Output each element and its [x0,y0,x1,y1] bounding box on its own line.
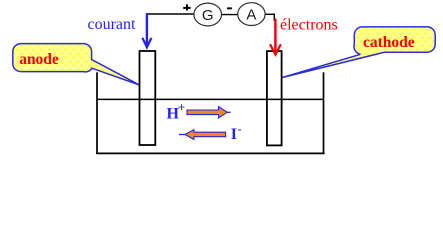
cathode callout bubble [282,27,435,78]
wire A to corner [265,13,276,15]
minus sign [227,7,232,9]
electrons red arrow shaft [274,19,276,52]
plus sign [183,7,190,9]
svg-text:A: A [246,7,256,24]
wire electrode to G [146,13,194,15]
H+ arrow (right) [187,107,227,118]
svg-text:électrons: électrons [280,17,338,34]
left electrode (anode plate) [140,51,156,145]
svg-text:-: - [238,122,242,136]
generator G [194,3,222,26]
tank left wall [96,72,98,154]
wire corner down to cathode [273,14,275,21]
svg-text:cathode: cathode [363,34,415,51]
electrolyte level line [97,98,324,100]
svg-text:anode: anode [19,51,59,68]
ammeter A [238,3,265,26]
anode callout bubble [13,44,140,85]
svg-text:I: I [231,126,237,143]
svg-text:G: G [202,7,214,24]
courant blue arrow shaft [146,13,148,44]
tank bottom [96,152,325,154]
I- arrow (left) [185,130,226,140]
svg-text:+: + [178,100,185,115]
courant arrowhead [142,38,151,48]
wire G to A [221,14,239,16]
svg-text:courant: courant [88,16,137,33]
tank right wall [323,72,325,154]
electrons arrowhead [270,44,281,54]
right electrode (cathode plate) [267,51,282,145]
